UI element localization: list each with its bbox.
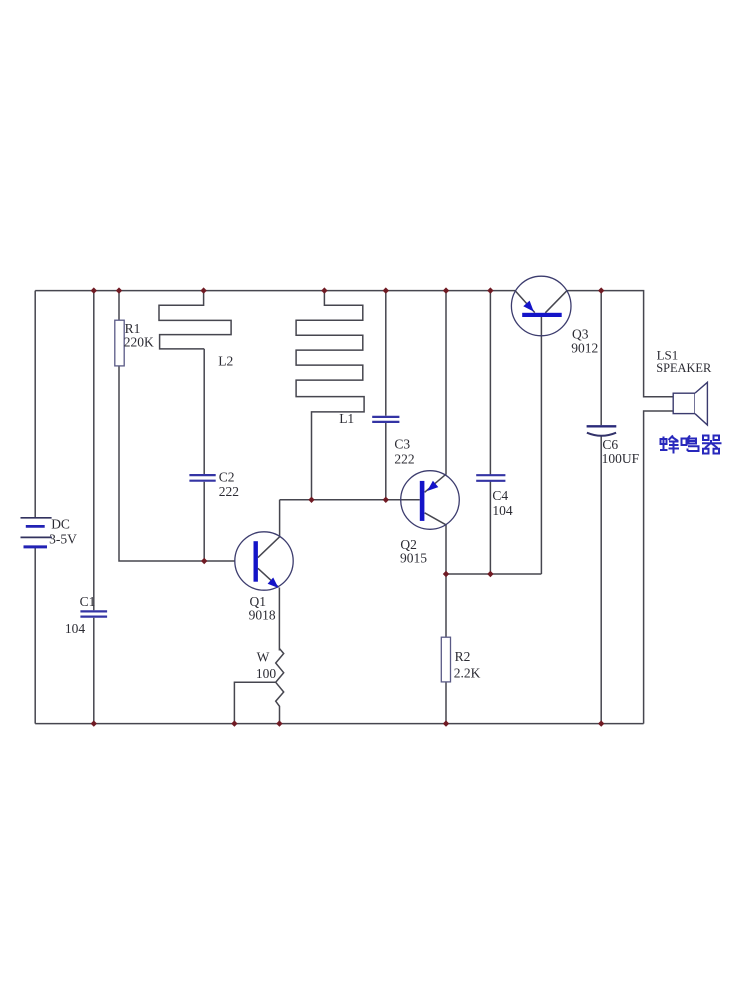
svg-text:L2: L2: [218, 353, 233, 368]
speaker LS1: [656, 348, 712, 425]
wire: potentiometer wiper tap: [234, 682, 275, 723]
wire: Q2 emitter lead from top rail: [425, 291, 446, 493]
svg-text:104: 104: [492, 503, 513, 518]
junction: top rail / R1: [116, 287, 122, 293]
svg-text:DC: DC: [51, 516, 70, 531]
svg-text:R2: R2: [455, 649, 471, 664]
potentiometer W zigzag: [276, 649, 284, 724]
wire: Q3 collector to speaker-top net: [567, 291, 673, 397]
wire: top power rail: [35, 290, 515, 292]
junction: top rail / C1: [91, 287, 97, 293]
svg-text:L1: L1: [339, 411, 354, 426]
capacitor C6 (polarized): [587, 426, 640, 466]
transistor Q3 (9012 PNP): [511, 276, 598, 355]
wire: C3 branch: [385, 291, 387, 500]
wire: Q2 collector lead: [425, 513, 446, 574]
inductor L2: [159, 291, 231, 349]
junction: top rail / C4: [487, 287, 493, 293]
junction: ground rail / potentiometer: [276, 720, 282, 726]
wire: R1 branch to Q1 base: [119, 291, 235, 561]
junction: Q1 base line / C2: [201, 558, 207, 564]
svg-text:104: 104: [65, 621, 86, 636]
wire: C2 leads: [203, 349, 205, 561]
junction: ground rail / R2: [443, 720, 449, 726]
junction: ground rail / wiper tap: [231, 720, 237, 726]
potentiometer W labels: [256, 649, 277, 681]
battery DC 3-5V: [21, 516, 78, 547]
transistor Q2 (9015 PNP): [400, 471, 459, 566]
capacitor C1: [65, 594, 107, 636]
transistor Q1 (9018 NPN): [235, 532, 293, 623]
svg-text:C1: C1: [80, 594, 96, 609]
junction: top rail / C3: [383, 287, 389, 293]
transistor Q3 collector diagonal: [545, 291, 567, 313]
wire: C4 branch: [489, 291, 491, 574]
svg-text:222: 222: [394, 451, 414, 466]
resistor R1: [115, 320, 154, 366]
wire: R2 leads: [445, 574, 447, 724]
resistor R2: [441, 637, 480, 682]
svg-text:C6: C6: [602, 437, 618, 452]
transistor Q3 emitter diagonal: [515, 291, 534, 313]
wire: Q1 collector lead: [258, 500, 280, 558]
wire: left battery branch lower: [34, 548, 36, 724]
junction: y574 line / Q2 collector: [443, 571, 449, 577]
svg-text:C4: C4: [492, 488, 508, 503]
wire: node line y574: [446, 573, 541, 575]
junction: ground rail / C1: [91, 720, 97, 726]
wire: Q1 emitter lead: [258, 568, 280, 650]
svg-text:9012: 9012: [571, 340, 598, 355]
junction: mid line / C3: [383, 497, 389, 503]
wire: Q3 base lead: [540, 317, 542, 574]
capacitor C2: [189, 469, 239, 499]
svg-text:9018: 9018: [249, 608, 276, 623]
junction: speaker net / C6: [598, 287, 604, 293]
wire: mid node line (L1/C3 to Q2 base): [280, 499, 420, 501]
inductor L1: [296, 291, 364, 500]
svg-text:Q3: Q3: [572, 326, 589, 341]
svg-text:C3: C3: [394, 437, 410, 452]
junction: top rail / Q2 emitter: [443, 287, 449, 293]
label 蜂鸣器 (buzzer, drawn as strokes): [660, 436, 722, 454]
svg-text:SPEAKER: SPEAKER: [656, 361, 712, 375]
svg-text:9015: 9015: [400, 551, 427, 566]
svg-text:W: W: [257, 649, 270, 664]
wire: C1 branch: [93, 291, 95, 724]
svg-text:100: 100: [256, 666, 277, 681]
svg-text:2.2K: 2.2K: [454, 665, 481, 680]
junction: ground rail / C6: [598, 720, 604, 726]
capacitor C3: [372, 417, 414, 466]
junction: top rail / L1: [321, 287, 327, 293]
svg-text:100UF: 100UF: [602, 451, 640, 466]
junction: y574 line / C4: [487, 571, 493, 577]
svg-text:222: 222: [219, 484, 239, 499]
junction: top rail / L2: [200, 287, 206, 293]
node junction dots: [91, 287, 605, 726]
wire: speaker bottom return to ground rail: [644, 411, 674, 724]
svg-text:220K: 220K: [124, 334, 154, 349]
wire: C6 branch: [600, 291, 602, 724]
junction: mid line / L1: [308, 497, 314, 503]
wire: bottom ground rail: [35, 723, 643, 725]
svg-text:C2: C2: [219, 469, 235, 484]
svg-text:3-5V: 3-5V: [49, 531, 77, 546]
capacitor C4: [476, 475, 513, 518]
wire: left battery branch upper: [34, 291, 36, 518]
